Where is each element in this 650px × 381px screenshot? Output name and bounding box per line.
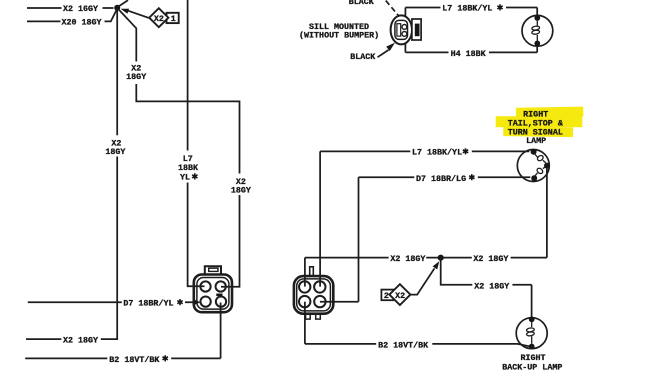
svg-text:L7 18BK/YL: L7 18BK/YL bbox=[442, 4, 492, 14]
svg-text:1: 1 bbox=[171, 14, 176, 24]
svg-text:BACK-UP LAMP: BACK-UP LAMP bbox=[502, 363, 562, 373]
svg-text:X2: X2 bbox=[154, 14, 164, 24]
connector C2 pin bottom-right bbox=[314, 296, 325, 307]
bulb license lamp bbox=[522, 15, 553, 46]
wire H4 18BK bottom bbox=[405, 46, 537, 53]
filament license lamp bbox=[536, 21, 538, 41]
wire from tail lamp right terminal down bbox=[546, 168, 548, 257]
svg-text:18BK: 18BK bbox=[178, 163, 198, 173]
wire L7 to connector C2 top-right pin bbox=[319, 151, 321, 286]
svg-text:X2 18GY: X2 18GY bbox=[473, 254, 508, 264]
terminal right bbox=[544, 163, 550, 169]
wire X2 18GY down to back-up lamp bbox=[441, 258, 532, 317]
wire X20 18GY bbox=[27, 10, 117, 22]
svg-text:18GY: 18GY bbox=[231, 185, 251, 195]
connector C2 pin top-left bbox=[299, 281, 310, 292]
terminal top bbox=[531, 149, 537, 155]
wire X2 to connector C2 top-left pin bbox=[304, 258, 306, 287]
connector C2 body bbox=[294, 276, 333, 314]
wire D7 from connector C2 bottom-right pin bbox=[320, 177, 359, 301]
connector C2 (right 4-way) tab bbox=[310, 267, 314, 276]
connector C2 pin bottom-left bbox=[299, 296, 310, 307]
connector C1 key bar bbox=[216, 294, 222, 297]
svg-text:2: 2 bbox=[384, 291, 389, 301]
wire L7 18BK/YL vertical (x=188) upper bbox=[187, 0, 189, 151]
sill connector body (oval) bbox=[391, 15, 412, 44]
node junction splice (top left) bbox=[114, 5, 120, 11]
wire X2 18GY vertical (x=117) lower, to left stub bbox=[26, 157, 117, 340]
filament upper bbox=[536, 154, 544, 161]
connector C1 pin top-left bbox=[200, 281, 210, 291]
wire spur from splice to top edge bbox=[118, 0, 128, 6]
connector C1 pin bottom-right bbox=[216, 296, 226, 306]
wire D7 18BR/YL with arrow to connector pin bbox=[28, 301, 193, 303]
wire L7 into connector top-left pin bbox=[188, 183, 205, 287]
connector symbol X2 (diamond, top left) bbox=[149, 8, 168, 27]
wire arrow from X2 cavity 2 to splice bbox=[410, 268, 434, 294]
svg-text:B2 18VT/BK: B2 18VT/BK bbox=[109, 355, 159, 365]
wire license lamp loop vertical bbox=[404, 8, 406, 53]
wire B2 18VT/BK to connector bottom-right pin bbox=[25, 303, 220, 359]
svg-text:X2 18GY: X2 18GY bbox=[390, 254, 425, 264]
svg-text:BLACK: BLACK bbox=[349, 0, 374, 7]
svg-text:H4 18BK: H4 18BK bbox=[451, 49, 486, 59]
bulb tail stop turn lamp bbox=[517, 150, 549, 182]
sill connector right latch bbox=[412, 19, 421, 40]
svg-text:L7 18BK/YL: L7 18BK/YL bbox=[412, 148, 462, 158]
svg-text:X2: X2 bbox=[395, 291, 405, 301]
connector C1 pin top-right bbox=[216, 281, 226, 291]
connector C2 pin top-right bbox=[314, 281, 325, 292]
wire X2 18GY vertical (x=117) upper bbox=[116, 11, 118, 136]
bulb back-up lamp bbox=[516, 318, 547, 349]
filament back-up lamp bbox=[531, 322, 533, 344]
wire B2 from connector C2 bottom-left pin bbox=[304, 302, 306, 344]
highlight RIGHT TAIL,STOP & TURN SIGNAL (yellow) bbox=[496, 107, 584, 137]
wire dashed leader from BLACK bbox=[386, 1, 399, 17]
wire L7 18BK/YL top bbox=[405, 8, 537, 17]
svg-text:X2 16GY: X2 16GY bbox=[63, 4, 98, 14]
svg-text:D7 18BR/YL: D7 18BR/YL bbox=[123, 299, 173, 309]
svg-text:X20 18GY: X20 18GY bbox=[62, 17, 102, 27]
wire B2 18VT/BK to back-up lamp bbox=[305, 344, 530, 346]
wire arrow from connector symbol X2 cavity 1 to splice bbox=[128, 11, 149, 18]
terminal top bbox=[529, 316, 535, 322]
svg-text:B2 18VT/BK: B2 18VT/BK bbox=[378, 340, 428, 350]
wire X2 16GY (top left) bbox=[27, 7, 114, 9]
connector C1 (left 4-way) tab bbox=[205, 266, 221, 274]
svg-text:D7 18BR/LG: D7 18BR/LG bbox=[416, 174, 466, 184]
cavity box 1 bbox=[167, 13, 179, 23]
terminal bottom bbox=[529, 344, 535, 350]
svg-text:BLACK: BLACK bbox=[350, 52, 375, 62]
filament lower bbox=[536, 167, 544, 174]
wire L7 18BK/YL to tail lamp bbox=[320, 150, 529, 152]
svg-text:YL: YL bbox=[180, 172, 190, 182]
wire X2 18GY into connector top-right pin bbox=[221, 195, 240, 287]
connector symbol X2 cavity 2 (diamond with box) bbox=[381, 290, 393, 301]
terminal bottom bbox=[534, 41, 540, 47]
svg-text:X2 18GY: X2 18GY bbox=[63, 336, 98, 346]
wire D7 18BR/LG to tail lamp bbox=[359, 176, 531, 178]
svg-text:(WITHOUT BUMPER): (WITHOUT BUMPER) bbox=[299, 31, 379, 41]
wire X2 18GY horizontal (to splice) bbox=[305, 257, 547, 259]
terminal top bbox=[534, 15, 540, 21]
wire X2 18GY (diagonal from splice, x=136) bbox=[118, 9, 136, 62]
wire X2 18GY elbow to x=240 vertical bbox=[136, 84, 239, 174]
svg-text:18GY: 18GY bbox=[126, 72, 146, 82]
svg-text:LAMP: LAMP bbox=[526, 136, 546, 146]
connector C1 body bbox=[194, 275, 232, 313]
connector C1 pin bottom-left bbox=[200, 296, 210, 306]
svg-text:18GY: 18GY bbox=[105, 147, 125, 157]
terminal bottom-left bbox=[531, 175, 537, 181]
svg-text:X2 18GY: X2 18GY bbox=[474, 281, 509, 291]
connector C2 feet bbox=[306, 314, 311, 319]
node splice X2 bbox=[438, 255, 444, 261]
svg-text:RIGHT: RIGHT bbox=[520, 353, 545, 363]
